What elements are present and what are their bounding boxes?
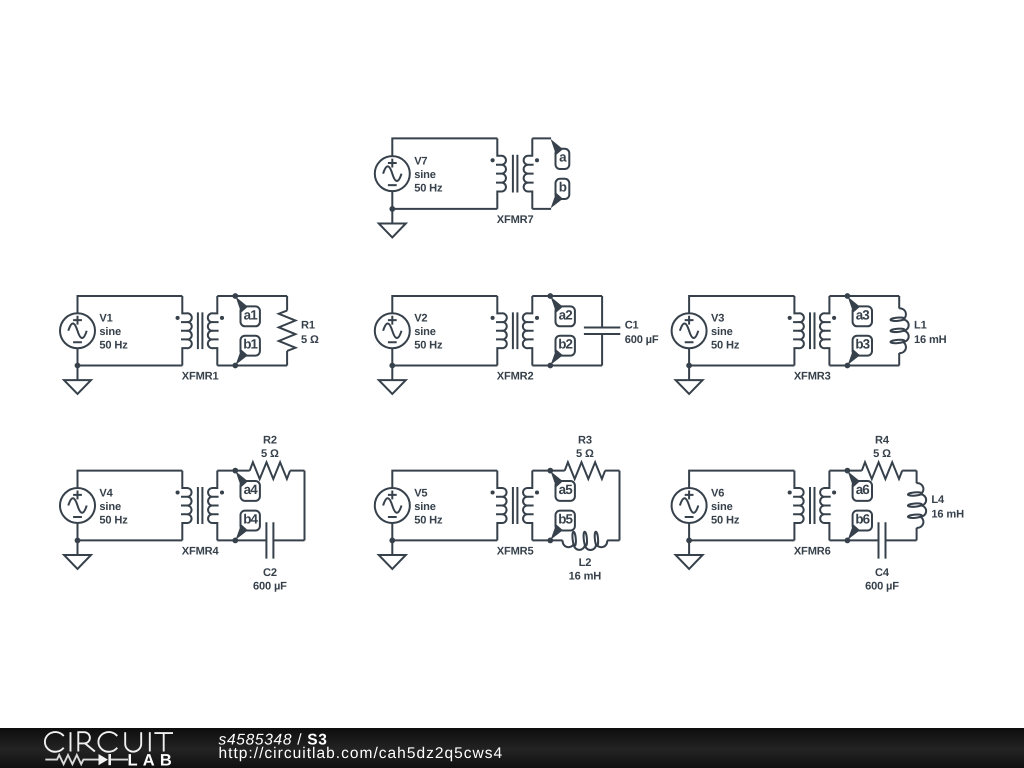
svg-text:b3: b3 (855, 337, 869, 352)
label V5 sine 50 Hz (414, 487, 443, 526)
wire right rail (619, 471, 621, 541)
flag a4 (236, 471, 260, 501)
wire bottom rail right (607, 539, 619, 541)
svg-text:5 Ω: 5 Ω (873, 448, 891, 460)
node b5 junction (547, 538, 553, 544)
svg-text:V7: V7 (414, 155, 427, 167)
resistor R4 (862, 462, 902, 479)
voltage source V3 (672, 313, 707, 348)
wire bottom rail left (532, 539, 562, 541)
label V3 sine 50 Hz (711, 313, 740, 352)
node a1 junction (232, 293, 238, 299)
logo resistor symbol (45, 755, 98, 764)
svg-text:XFMR5: XFMR5 (497, 545, 534, 557)
wire XFMR1 primary- to V1- (78, 348, 183, 365)
label R3 5 &#937; (576, 435, 594, 461)
node b2 junction (547, 363, 553, 369)
inductor L1 (890, 308, 908, 353)
wire right rail upper (601, 296, 603, 327)
flag b2 (551, 336, 575, 365)
svg-text:R4: R4 (875, 435, 890, 447)
transformer XFMR1 (176, 296, 225, 366)
wire bottom rail right (886, 539, 917, 541)
svg-text:sine: sine (711, 501, 733, 513)
flag a3 (848, 297, 872, 327)
flag a2 (551, 297, 575, 327)
flag b1 (236, 336, 260, 365)
label V6 sine 50 Hz (711, 487, 740, 526)
wire right rail lower (601, 334, 603, 365)
svg-text:b: b (559, 180, 567, 195)
CircuitLab logo wordmark CIRCUIT (45, 732, 173, 752)
svg-text:R1: R1 (301, 319, 315, 331)
wire R4 to top-right corner (902, 470, 916, 472)
svg-text:XFMR1: XFMR1 (182, 371, 219, 383)
svg-text:50 Hz: 50 Hz (711, 340, 740, 352)
node a4 junction (232, 468, 238, 474)
svg-text:V6: V6 (711, 487, 724, 499)
svg-text:R3: R3 (578, 435, 592, 447)
svg-text:600 µF: 600 µF (253, 581, 287, 593)
label V4 sine 50 Hz (99, 487, 128, 526)
svg-text:V4: V4 (99, 487, 113, 499)
svg-text:5 Ω: 5 Ω (301, 334, 319, 346)
svg-text:50 Hz: 50 Hz (711, 514, 740, 526)
wire XFMR5 primary- to V5- (392, 523, 497, 540)
svg-text:V3: V3 (711, 313, 724, 325)
resistor R3 (565, 462, 605, 479)
svg-text:a4: a4 (244, 482, 259, 497)
svg-text:50 Hz: 50 Hz (414, 340, 443, 352)
ground GND V1 (64, 366, 91, 395)
svg-text:5 Ω: 5 Ω (261, 448, 279, 460)
svg-text:http://circuitlab.com/cah5dz2q: http://circuitlab.com/cah5dz2q5cws4 (219, 745, 504, 762)
svg-text:R2: R2 (263, 435, 277, 447)
capacitor C2 (266, 522, 273, 558)
ground GND V7 (379, 209, 406, 238)
label C1 600 &#181;F (625, 319, 659, 346)
svg-text:sine: sine (414, 326, 436, 338)
svg-text:b2: b2 (558, 337, 572, 352)
label V7 sine 50 Hz (414, 155, 443, 194)
svg-text:a1: a1 (244, 307, 259, 322)
node a2 junction (547, 293, 553, 299)
voltage source V2 (375, 313, 410, 348)
logo diode symbol (99, 754, 109, 765)
svg-text:b4: b4 (243, 512, 258, 527)
transformer XFMR7 (491, 138, 539, 209)
svg-text:sine: sine (414, 501, 436, 513)
wire XFMR3 primary- to V3- (689, 348, 794, 365)
svg-text:50 Hz: 50 Hz (414, 514, 443, 526)
svg-text:XFMR2: XFMR2 (497, 371, 534, 383)
wire V5+ to XFMR5 primary (392, 471, 497, 488)
transformer XFMR4 (176, 471, 225, 541)
ground GND V3 (676, 366, 703, 395)
svg-text:600 µF: 600 µF (865, 581, 899, 593)
node ground junction V7 (389, 206, 395, 212)
transformer XFMR2 (491, 296, 539, 366)
resistor R1 (279, 311, 296, 351)
ground GND V6 (676, 540, 703, 569)
wire right rail upper (916, 471, 918, 484)
voltage source V5 (375, 488, 410, 523)
inductor L2 (563, 532, 608, 550)
svg-text:a3: a3 (856, 307, 870, 322)
node ground junction V5 (389, 538, 395, 544)
svg-text:XFMR6: XFMR6 (794, 545, 831, 557)
flag a1 (236, 297, 260, 327)
voltage source V6 (672, 488, 707, 523)
voltage source V1 (60, 313, 95, 348)
flag b (551, 179, 570, 209)
wire XFMR2 primary- to V2- (392, 348, 497, 365)
wire XFMR6 primary- to V6- (689, 523, 794, 540)
voltage source V4 (60, 488, 95, 523)
wire XFMR4 secondary+ rail (217, 470, 249, 472)
svg-text:L1: L1 (914, 319, 927, 331)
svg-text:XFMR4: XFMR4 (182, 545, 220, 557)
svg-text:C4: C4 (875, 567, 890, 579)
wire XFMR2 secondary+ rail (532, 295, 602, 297)
wire V2+ to XFMR2 primary (392, 296, 497, 313)
node b3 junction (845, 363, 851, 369)
wire right rail lower (898, 353, 900, 366)
wire bottom rail to XFMR1 secondary- (217, 365, 287, 367)
wire XFMR7 primary- to V7- (392, 191, 497, 209)
wire R3 to top-right corner (605, 470, 619, 472)
svg-text:16 mH: 16 mH (569, 571, 602, 583)
wire right rail lower (916, 528, 918, 541)
svg-text:16 mH: 16 mH (931, 509, 964, 521)
svg-text:5 Ω: 5 Ω (576, 448, 594, 460)
wire XFMR1 secondary+ rail (217, 295, 287, 297)
node ground junction V6 (686, 538, 692, 544)
capacitor C1 (584, 327, 620, 334)
flag b3 (848, 336, 872, 365)
svg-text:XFMR7: XFMR7 (497, 214, 534, 226)
svg-text:50 Hz: 50 Hz (414, 183, 443, 195)
svg-text:V2: V2 (414, 313, 427, 325)
wire right rail lower (286, 351, 288, 366)
wire bottom rail left (829, 539, 878, 541)
label L2 16 mH (569, 557, 602, 583)
wire right rail upper (286, 296, 288, 311)
flag a6 (848, 471, 872, 501)
svg-text:b5: b5 (558, 512, 573, 527)
label V1 sine 50 Hz (99, 313, 128, 352)
wire right rail upper (898, 296, 900, 309)
wire bottom rail to XFMR3 secondary- (829, 365, 899, 367)
transformer XFMR6 (788, 471, 836, 541)
node ground junction V4 (75, 538, 81, 544)
svg-text:b1: b1 (243, 337, 258, 352)
label C2 600 &#181;F (253, 567, 287, 593)
svg-text:XFMR3: XFMR3 (794, 371, 831, 383)
svg-text:a6: a6 (856, 482, 870, 497)
flag a5 (551, 471, 575, 501)
node a5 junction (547, 468, 553, 474)
node ground junction V3 (686, 363, 692, 369)
resistor R2 (250, 462, 290, 479)
wire V6+ to XFMR6 primary (689, 471, 794, 488)
wire XFMR6 secondary+ rail (829, 470, 861, 472)
wire bottom rail right (273, 539, 304, 541)
svg-text:V1: V1 (99, 313, 112, 325)
svg-text:C1: C1 (625, 319, 639, 331)
label R4 5 &#937; (873, 435, 891, 461)
capacitor C4 (879, 522, 886, 558)
svg-text:C2: C2 (263, 567, 277, 579)
node b1 junction (232, 363, 238, 369)
label L1 16 mH (914, 319, 947, 346)
wire XFMR7 secondary+ stub (532, 137, 551, 139)
flag b5 (551, 511, 575, 540)
ground GND V2 (379, 366, 406, 395)
flag b4 (236, 511, 260, 540)
svg-text:V5: V5 (414, 487, 427, 499)
wire XFMR7 secondary- stub (532, 208, 551, 210)
inductor L4 (908, 483, 926, 528)
node a3 junction (845, 293, 851, 299)
ground GND V4 (64, 540, 91, 569)
svg-text:a2: a2 (559, 307, 573, 322)
svg-text:16 mH: 16 mH (914, 334, 947, 346)
wire V7+ to XFMR7 primary (392, 138, 497, 156)
svg-text:LAB: LAB (128, 752, 178, 768)
label L4 16 mH (931, 494, 964, 521)
wire R2 to top-right corner (290, 470, 304, 472)
flag a (551, 139, 570, 169)
voltage source V7 (375, 156, 410, 191)
wire XFMR3 secondary+ rail (829, 295, 899, 297)
wire V4+ to XFMR4 primary (78, 471, 183, 488)
svg-text:50 Hz: 50 Hz (99, 340, 128, 352)
node b4 junction (232, 538, 238, 544)
node ground junction V1 (75, 363, 81, 369)
svg-text:sine: sine (99, 501, 121, 513)
wire XFMR5 secondary+ rail (532, 470, 564, 472)
svg-text:600 µF: 600 µF (625, 334, 659, 346)
svg-text:sine: sine (414, 169, 436, 181)
wire XFMR4 primary- to V4- (78, 523, 183, 540)
transformer XFMR3 (788, 296, 836, 366)
node b6 junction (845, 538, 851, 544)
wire bottom rail to XFMR2 secondary- (532, 365, 602, 367)
label R1 5 &#937; (301, 319, 319, 346)
wire V3+ to XFMR3 primary (689, 296, 794, 313)
ground GND V5 (379, 540, 406, 569)
label C4 600 &#181;F (865, 567, 899, 593)
transformer XFMR5 (491, 471, 539, 541)
svg-text:sine: sine (99, 326, 121, 338)
flag b6 (848, 511, 872, 540)
svg-text:L4: L4 (931, 494, 945, 506)
wire bottom rail left (217, 539, 266, 541)
svg-text:a5: a5 (559, 482, 574, 497)
label R2 5 &#937; (261, 435, 279, 461)
svg-text:sine: sine (711, 326, 733, 338)
svg-text:b6: b6 (855, 512, 869, 527)
svg-text:L2: L2 (579, 557, 592, 569)
svg-text:50 Hz: 50 Hz (99, 514, 128, 526)
node ground junction V2 (389, 363, 395, 369)
node a6 junction (845, 468, 851, 474)
wire right rail (304, 471, 306, 541)
label V2 sine 50 Hz (414, 313, 443, 352)
wire V1+ to XFMR1 primary (78, 296, 183, 313)
